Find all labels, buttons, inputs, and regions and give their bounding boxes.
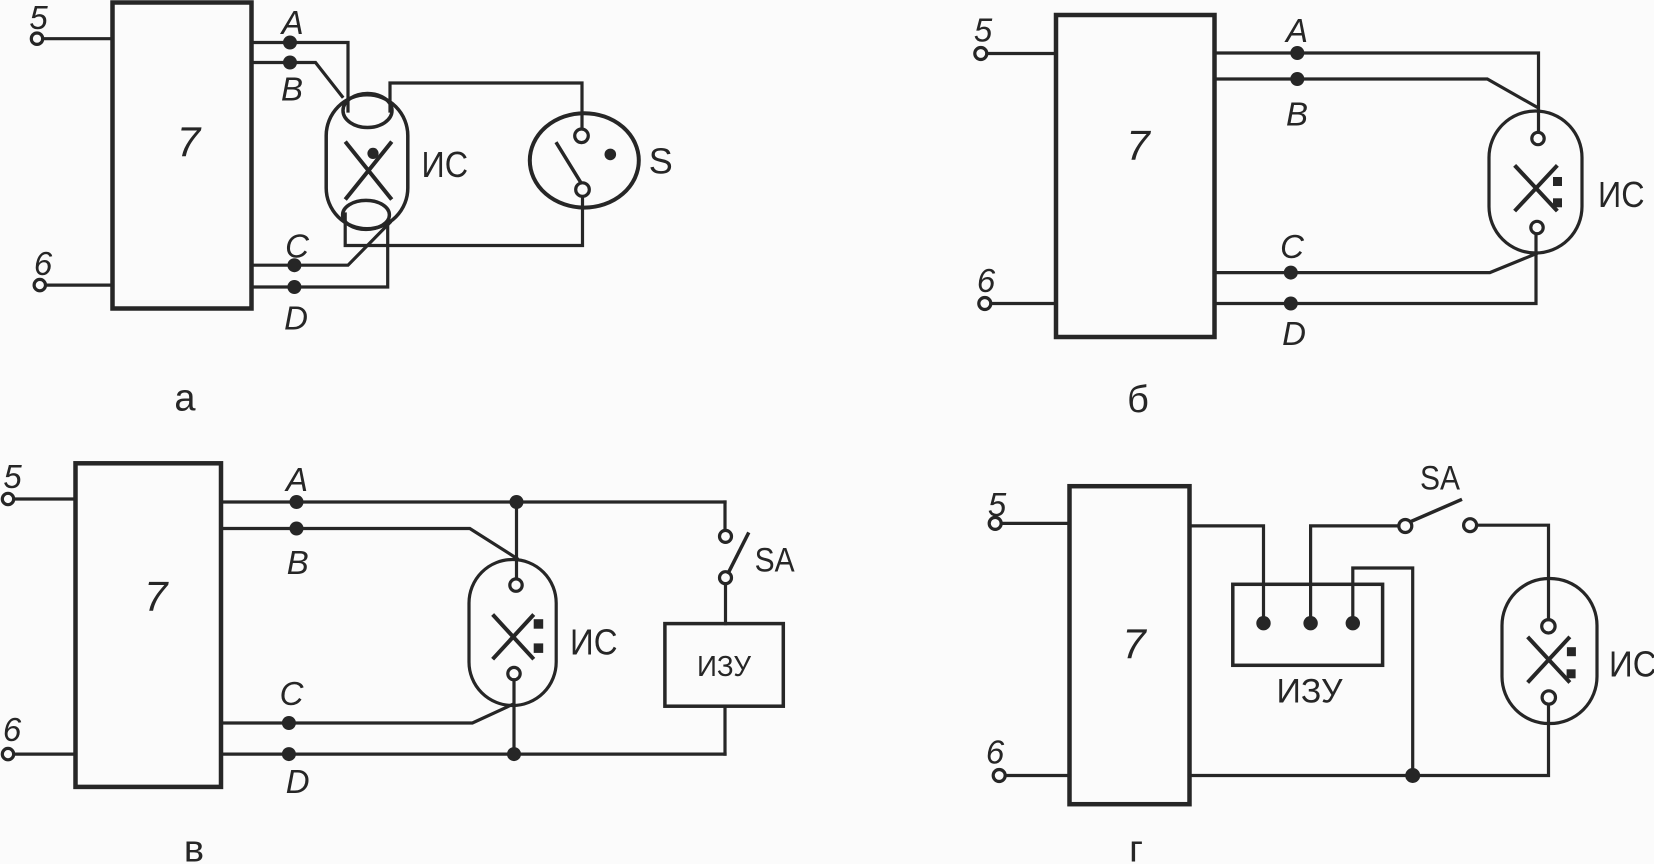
svg-text:C: C — [280, 675, 305, 712]
svg-text:D: D — [286, 763, 310, 800]
junction dot D (circuit a) — [287, 280, 301, 294]
IZU box (circuit v) — [665, 624, 783, 707]
terminal 6 (circuit g) — [993, 770, 1005, 782]
wire SA to lamp top (circuit g) — [1477, 525, 1549, 619]
terminal 5 (circuit a) — [31, 33, 42, 44]
wire from terminal 6 to ballast 7 — [14, 752, 76, 755]
wire C (circuit b) — [1215, 254, 1537, 273]
svg-text:ИС: ИС — [1609, 644, 1654, 685]
terminal 6 (circuit a) — [34, 279, 45, 290]
wire A (circuit v) — [221, 500, 725, 503]
svg-text:5: 5 — [29, 0, 48, 36]
wire B (circuit v) — [221, 529, 517, 559]
wire ballast to IZU pin 1 (circuit g) — [1190, 526, 1264, 617]
svg-text:а: а — [174, 378, 196, 420]
terminal 6 (circuit b) — [979, 298, 991, 310]
svg-text:ИС: ИС — [1598, 174, 1645, 215]
lamp cross X (circuit a) — [347, 143, 391, 198]
wire starter S bottom to lamp bottom-left lead — [345, 197, 582, 246]
svg-text:ИЗУ: ИЗУ — [1277, 673, 1343, 711]
junction dot bottom (circuit g) — [1405, 768, 1420, 783]
svg-text:7: 7 — [1122, 620, 1147, 667]
svg-text:A: A — [284, 461, 308, 498]
lamp top pin circle (circuit g) — [1542, 620, 1555, 633]
terminal 5 (circuit g) — [989, 517, 1001, 529]
wire ballast bottom to lamp bottom (circuit g) — [1190, 704, 1549, 775]
wire from terminal 5 to ballast 7 — [14, 497, 76, 500]
svg-text:C: C — [285, 228, 310, 265]
svg-text:SA: SA — [755, 542, 795, 580]
lamp cross X (circuit b) — [1516, 167, 1556, 210]
svg-text:в: в — [184, 829, 204, 864]
wire B (circuit b) — [1215, 79, 1538, 108]
lamp dot 1 (circuit b) — [1553, 177, 1562, 186]
junction dot C (circuit v) — [282, 716, 296, 730]
svg-text:D: D — [284, 300, 308, 337]
wire D (circuit a) — [252, 222, 388, 287]
wire C (circuit v) — [221, 704, 514, 723]
starter gas dot — [605, 149, 617, 161]
wire from terminal 6 to ballast 7 — [46, 284, 113, 287]
lamp cross X (circuit g) — [1529, 638, 1569, 681]
lamp dot 2 (circuit b) — [1553, 198, 1562, 207]
svg-text:ИЗУ: ИЗУ — [697, 651, 752, 683]
junction dot lamp bottom (circuit v) — [507, 747, 521, 761]
wire D (circuit b) — [1215, 234, 1537, 304]
svg-text:D: D — [1282, 315, 1306, 352]
svg-text:C: C — [1280, 228, 1305, 265]
svg-text:B: B — [287, 544, 309, 581]
ballast box 7 (circuit a) — [113, 3, 252, 309]
switch SA left circle (circuit g) — [1399, 520, 1412, 533]
IZU box (circuit g) — [1233, 584, 1383, 665]
lamp dot 1 (circuit g) — [1567, 647, 1576, 656]
svg-text:б: б — [1127, 379, 1149, 421]
switch SA lever (circuit v) — [729, 534, 749, 573]
wire A (circuit a) — [252, 43, 349, 112]
svg-text:ИС: ИС — [570, 621, 618, 662]
terminal 6 (circuit v) — [2, 748, 13, 759]
junction dot A (circuit a) — [283, 36, 297, 50]
lamp IS bulb outline (circuit g) — [1502, 579, 1597, 724]
lamp IS bulb outline (circuit v) — [469, 560, 556, 706]
lamp top pin circle (circuit b) — [1532, 132, 1544, 144]
wire from terminal 5 to ballast 7 — [43, 37, 113, 40]
IZU pin dot 2 (circuit g) — [1303, 616, 1317, 630]
wire A (circuit b) — [1215, 53, 1539, 132]
wire D (circuit v) — [221, 752, 725, 755]
starter lever — [557, 144, 581, 182]
svg-text:6: 6 — [34, 245, 53, 282]
svg-text:B: B — [281, 71, 303, 108]
svg-text:A: A — [1284, 12, 1308, 49]
wire A to switch SA (circuit v) — [723, 502, 726, 530]
lamp top filament loop (circuit a) — [343, 94, 392, 128]
IZU pin dot 3 (circuit g) — [1346, 616, 1360, 630]
wire from terminal 6 to ballast 7 — [1005, 774, 1069, 777]
svg-text:6: 6 — [986, 734, 1005, 771]
svg-text:7: 7 — [177, 118, 202, 165]
svg-text:7: 7 — [1126, 122, 1151, 169]
ballast box 7 (circuit b) — [1056, 15, 1215, 337]
lamp dot 1 (circuit v) — [534, 619, 544, 629]
lamp dot 2 (circuit v) — [534, 643, 544, 653]
junction dot D (circuit b) — [1284, 297, 1298, 311]
wire from terminal 5 to ballast 7 — [987, 52, 1056, 55]
junction dot B (circuit a) — [283, 56, 297, 70]
junction dot lamp top (circuit v) — [510, 495, 524, 509]
wire SA to IZU (circuit v) — [724, 584, 727, 624]
switch SA lever (circuit g) — [1411, 500, 1460, 522]
wire lamp bottom lead (circuit v) — [512, 680, 515, 754]
svg-text:5: 5 — [3, 458, 22, 495]
lamp gas dot (circuit a) — [367, 148, 378, 159]
terminal 5 (circuit b) — [975, 48, 987, 60]
svg-text:S: S — [649, 141, 673, 182]
wire IZU pin 2 to switch SA (circuit g) — [1311, 526, 1399, 617]
svg-text:г: г — [1129, 829, 1143, 864]
svg-text:ИС: ИС — [422, 144, 469, 185]
switch SA right circle (circuit g) — [1464, 519, 1477, 532]
wire lamp top lead (circuit v) — [515, 502, 518, 579]
ballast box 7 (circuit v) — [76, 463, 222, 787]
junction dot B (circuit v) — [290, 522, 304, 536]
junction dot D (circuit v) — [282, 747, 296, 761]
svg-text:B: B — [1286, 96, 1308, 133]
lamp top pin circle (circuit v) — [510, 579, 522, 591]
svg-text:A: A — [280, 4, 304, 41]
IZU pin dot 1 (circuit g) — [1256, 616, 1270, 630]
wire IZU to wire D (circuit v) — [723, 706, 726, 754]
svg-text:6: 6 — [3, 711, 22, 748]
lamp bottom filament loop (circuit a) — [343, 200, 390, 229]
lamp dot 2 (circuit g) — [1567, 669, 1576, 678]
lamp bottom pin circle (circuit b) — [1531, 221, 1543, 233]
wire from terminal 6 to ballast 7 — [991, 302, 1056, 305]
junction dot C (circuit a) — [287, 258, 301, 272]
starter bottom pin circle — [576, 183, 590, 197]
switch SA bottom circle (circuit v) — [720, 572, 732, 584]
svg-text:5: 5 — [974, 12, 993, 49]
lamp bottom pin circle (circuit g) — [1542, 691, 1555, 704]
junction dot C (circuit b) — [1284, 266, 1298, 280]
svg-text:SA: SA — [1420, 460, 1460, 498]
starter S body circle — [530, 113, 639, 207]
wire IZU pin 3 bypass (circuit g) — [1353, 568, 1413, 776]
junction dot A (circuit v) — [290, 495, 304, 509]
lamp bottom pin circle (circuit v) — [508, 667, 520, 679]
lamp IS bulb outline (circuit b) — [1489, 111, 1582, 253]
lamp IS bulb outline (circuit a) — [326, 95, 408, 229]
wire B (circuit a) — [252, 63, 343, 97]
svg-text:7: 7 — [144, 573, 169, 620]
svg-text:6: 6 — [977, 262, 996, 299]
svg-text:5: 5 — [988, 486, 1007, 523]
wire C (circuit a) — [252, 223, 391, 266]
wire from terminal 5 to ballast 7 — [1001, 522, 1069, 525]
ballast box 7 (circuit g) — [1070, 486, 1190, 804]
terminal 5 (circuit v) — [2, 493, 13, 504]
switch SA top circle (circuit v) — [720, 530, 732, 542]
lamp cross X (circuit v) — [494, 616, 532, 658]
starter top pin circle — [575, 129, 589, 143]
wire lamp top-right lead to starter S top — [390, 83, 582, 129]
junction dot A (circuit b) — [1290, 46, 1304, 60]
junction dot B (circuit b) — [1290, 72, 1304, 86]
